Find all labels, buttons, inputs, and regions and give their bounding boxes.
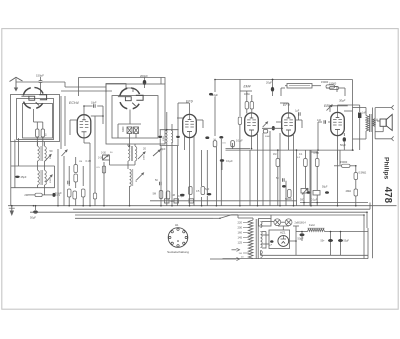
svg-text:1M: 1M: [172, 194, 175, 197]
junction: [296, 149, 298, 151]
junction: [352, 149, 354, 151]
bus tap boxes: [165, 199, 170, 203]
tuning gang section C1: [23, 88, 31, 96]
wire: [372, 108, 374, 259]
wire: [33, 109, 35, 122]
junction: [189, 205, 191, 207]
tube AZ1: [278, 236, 289, 247]
resistor 15000: [330, 86, 339, 89]
wire: [83, 106, 85, 115]
resistor 5M: [159, 191, 163, 199]
resistor 50000: [288, 190, 292, 198]
IF transformer 1 coils: [166, 131, 168, 143]
svg-text:1015: 1015: [50, 177, 52, 183]
wire: [288, 137, 290, 151]
socket pins: [177, 245, 179, 247]
junction: [129, 145, 131, 147]
transformer taps: [243, 222, 249, 224]
capacitor 4.5uF: [15, 176, 20, 178]
speaker frame top: [375, 107, 391, 109]
svg-text:15000: 15000: [329, 82, 337, 86]
wire: [337, 105, 339, 112]
trimmer arrow: [62, 150, 68, 157]
resistor: [263, 129, 267, 133]
junction: [251, 148, 253, 150]
junction: [317, 149, 319, 151]
wire: [129, 134, 131, 147]
trimmer arrow: [138, 152, 146, 160]
wire: [129, 110, 131, 125]
svg-text:150pF: 150pF: [36, 74, 44, 78]
capacitor: [270, 240, 273, 243]
svg-text:50µF: 50µF: [322, 186, 328, 189]
wire: [103, 154, 107, 156]
antenna coil L1: [38, 147, 40, 161]
transformer secondary HT: [261, 232, 263, 248]
capacitor 0.1uF: [220, 159, 224, 162]
wire: [262, 231, 266, 233]
rectifier box: [269, 230, 290, 249]
EM4 target box: [287, 84, 312, 89]
junction: [239, 205, 241, 207]
junction: [272, 79, 274, 81]
wire: [369, 203, 371, 210]
junction: [279, 205, 281, 207]
capacitor 50uF: [35, 206, 37, 210]
wire: [277, 150, 279, 159]
junction: [330, 231, 332, 233]
junction: [363, 214, 365, 216]
svg-text:Philips: Philips: [382, 157, 389, 180]
output transformer secondary: [373, 119, 375, 127]
junction: [11, 205, 13, 207]
transformer secondary heater 2: [261, 251, 263, 258]
wire: [295, 228, 297, 241]
svg-text:478: 478: [382, 187, 393, 204]
wire: [11, 165, 55, 167]
junction: [303, 202, 305, 204]
svg-text:0.1µF: 0.1µF: [311, 199, 318, 202]
wire: [281, 87, 285, 89]
junction: [102, 115, 104, 117]
junction: [366, 211, 368, 213]
svg-text:125: 125: [238, 241, 243, 245]
wire: [311, 151, 317, 153]
svg-text:3045: 3045: [50, 153, 52, 159]
wire: [326, 87, 330, 89]
wire: [28, 194, 35, 196]
svg-text:Feld: Feld: [309, 223, 315, 227]
horizontal: [300, 202, 368, 204]
resistor: [67, 189, 71, 197]
svg-text:20pF: 20pF: [160, 148, 166, 151]
trimmer arrow: [153, 150, 161, 157]
oscillator shield box: [79, 78, 165, 97]
wire: [239, 80, 241, 117]
wire: [365, 131, 367, 139]
dial lamp 2: [285, 219, 292, 226]
wire: [189, 138, 191, 206]
svg-text:0.5MΩ: 0.5MΩ: [359, 171, 367, 175]
wire: [262, 133, 264, 206]
wire: [251, 137, 253, 149]
resistor 0.1M: [304, 159, 308, 167]
capacitor 50uF b: [340, 232, 342, 256]
capacitor 50pF: [159, 182, 161, 186]
svg-text:2000: 2000: [143, 154, 145, 160]
resistor: [213, 141, 217, 147]
junction: [337, 205, 339, 207]
supply rail: [215, 79, 353, 81]
long horizontal: [226, 149, 291, 151]
svg-text:5000: 5000: [265, 136, 271, 138]
mains lead 1: [223, 258, 237, 260]
junction: [160, 205, 162, 207]
supply rail 2: [297, 149, 355, 151]
wire: [83, 138, 85, 143]
padder trimmer: [134, 127, 139, 134]
tube ECH4: [77, 115, 91, 138]
capacitor: [272, 126, 275, 130]
coil: [36, 129, 39, 137]
wire: [246, 91, 248, 102]
wire: [10, 142, 12, 206]
svg-text:10pF: 10pF: [91, 102, 97, 105]
trimmer arrow: [263, 122, 268, 128]
resistor 15000: [342, 164, 351, 167]
tube EF9b: [282, 113, 296, 136]
dial lamp 1: [274, 219, 281, 226]
bottom rail 2: [223, 258, 369, 260]
resistor 1M: [276, 159, 280, 167]
svg-text:20µF: 20µF: [266, 81, 272, 85]
IF transformer cap: [159, 130, 161, 135]
junction: [166, 129, 168, 131]
wire: [325, 231, 369, 233]
junction: [355, 165, 357, 167]
svg-text:Sockelschaltung: Sockelschaltung: [167, 250, 189, 254]
capacitor 10pF: [93, 104, 95, 108]
bus line 4: [75, 214, 364, 216]
wire: [355, 180, 357, 190]
capacitor 1uF: [298, 112, 300, 116]
svg-text:1µF: 1µF: [295, 110, 300, 113]
wire: [337, 136, 339, 206]
resistor: [102, 166, 105, 173]
bottom rail: [261, 254, 369, 256]
wire: [288, 103, 290, 113]
wire: [290, 149, 297, 151]
wire: [272, 80, 274, 88]
svg-text:50µF: 50µF: [298, 237, 304, 241]
speaker frame left: [374, 108, 376, 139]
junction: [89, 205, 91, 207]
wire: [127, 144, 129, 146]
capacitor: [180, 194, 185, 196]
capacitor: [205, 136, 209, 139]
svg-text:Ω1: Ω1: [175, 223, 179, 227]
svg-text:45pF: 45pF: [21, 175, 27, 179]
junction: [129, 205, 131, 207]
wire: [221, 162, 223, 170]
wire: [365, 108, 367, 116]
wire: [160, 146, 162, 206]
oscillator coil: [128, 147, 130, 161]
capacitor: [307, 191, 311, 194]
wire: [37, 142, 39, 147]
wire: [237, 215, 239, 218]
wire: [334, 165, 342, 167]
svg-text:3-30: 3-30: [101, 152, 106, 155]
wire: [60, 96, 62, 149]
svg-text:2x8018/14: 2x8018/14: [295, 222, 307, 225]
svg-text:0.1µF: 0.1µF: [55, 191, 62, 195]
wire: [57, 149, 59, 206]
supply drop: [352, 80, 354, 151]
junction: [82, 205, 84, 207]
oscillator coil box: [106, 84, 165, 144]
trimmer arrow: [327, 105, 333, 111]
wire: [335, 86, 338, 88]
capacitor 0.1uF: [67, 181, 69, 185]
svg-text:0.1µF: 0.1µF: [226, 159, 233, 163]
junction: [35, 205, 37, 207]
wire: [214, 80, 216, 93]
svg-text:15000: 15000: [321, 80, 329, 84]
IF transformer cap 2: [177, 130, 179, 135]
wire: [296, 150, 298, 206]
resistor 0.5M: [315, 159, 319, 167]
junction: [295, 240, 297, 242]
junction: [301, 231, 303, 233]
wire: [262, 234, 269, 236]
svg-text:220: 220: [238, 221, 243, 225]
svg-text:30pF: 30pF: [339, 99, 346, 103]
tube socket: [168, 228, 188, 248]
wire: [344, 110, 353, 112]
svg-text:ECH4: ECH4: [69, 101, 79, 105]
svg-text:50µF: 50µF: [340, 143, 346, 147]
bus line: [150, 200, 297, 202]
oscillator coil box inner: [112, 96, 158, 138]
svg-text:50µF: 50µF: [344, 240, 350, 243]
svg-text:3000: 3000: [122, 126, 125, 132]
svg-text:0.5µF: 0.5µF: [178, 195, 185, 198]
wire: [65, 86, 106, 88]
trimmer box 3-30: [103, 155, 110, 160]
resistor 2M: [35, 193, 42, 196]
transformer core: [255, 219, 257, 259]
svg-text:4Ω: 4Ω: [171, 201, 174, 203]
wire: [330, 105, 348, 107]
trimmer arrow: [46, 175, 53, 183]
svg-text:EBL1: EBL1: [324, 104, 333, 108]
capacitor 20uF: [271, 87, 274, 92]
capacitor: [323, 120, 325, 124]
resistor: [189, 187, 193, 195]
antenna coil L2: [38, 171, 40, 185]
transformer secondary heater: [261, 222, 263, 228]
resistor 0.5M: [354, 173, 358, 180]
tube EBL1: [331, 112, 345, 135]
junction: [340, 231, 342, 233]
svg-text:200: 200: [238, 226, 243, 230]
svg-text:1nF: 1nF: [317, 119, 322, 122]
speaker frame bottom: [375, 138, 391, 140]
junction: [33, 205, 35, 207]
wire: [11, 187, 55, 189]
capacitor: [52, 193, 55, 197]
capacitor: [282, 185, 286, 188]
wire: [40, 85, 42, 95]
resistor 4M: [354, 189, 358, 196]
wire: [177, 117, 183, 119]
stepped box: [106, 84, 133, 93]
bus line 2: [73, 208, 370, 210]
junction: [201, 205, 203, 207]
junction: [293, 205, 295, 207]
wire: [382, 126, 384, 131]
svg-text:2M: 2M: [24, 193, 28, 197]
oscillator coil 2: [130, 170, 132, 187]
antenna coil shield box inner2: [23, 104, 53, 139]
wire: [75, 217, 213, 219]
resistor: [245, 102, 248, 110]
capacitor 1nF: [359, 108, 361, 112]
junction: [83, 105, 85, 107]
svg-text:1M: 1M: [273, 153, 276, 156]
svg-text:1M: 1M: [79, 161, 82, 163]
junction: [272, 79, 274, 81]
wire: [249, 150, 251, 206]
dial lamp box: [259, 219, 272, 227]
junction: [57, 205, 59, 207]
trimmer arrow: [137, 173, 145, 181]
tube EF9: [183, 114, 197, 137]
trimmer arrow: [45, 154, 52, 161]
capacitor 50pF: [39, 80, 43, 82]
bus line 3: [30, 211, 367, 213]
wire: [262, 127, 283, 129]
capacitor 200pF: [143, 80, 147, 85]
speaker: [380, 119, 386, 126]
wire: [16, 81, 39, 83]
svg-text:3-30: 3-30: [98, 157, 103, 160]
svg-text:AZ1: AZ1: [280, 230, 286, 234]
junction: [316, 202, 318, 204]
capacitor 50uF: [301, 232, 303, 234]
transformer primary: [248, 220, 253, 259]
capacitor: [209, 93, 213, 96]
resistor 15000: [326, 85, 335, 88]
antenna: [10, 77, 23, 81]
capacitor: [219, 136, 223, 139]
junction: [277, 149, 279, 151]
svg-text:10µF: 10µF: [212, 93, 218, 97]
wire: [285, 85, 287, 87]
svg-text:200pF: 200pF: [140, 74, 148, 78]
output transformer primary: [366, 116, 369, 132]
resistor: [74, 165, 78, 173]
svg-text:50+: 50+: [321, 240, 326, 243]
antenna coil shield box inner: [17, 99, 54, 140]
antenna coil shield box: [11, 95, 60, 142]
svg-text:1300: 1300: [163, 135, 165, 141]
wire: [367, 228, 369, 259]
wire: [295, 119, 302, 121]
junction: [257, 205, 259, 207]
wire: [36, 137, 38, 146]
ground bus: [8, 205, 397, 207]
volume pot: [301, 189, 308, 194]
wire: [189, 103, 191, 114]
junction: [68, 205, 70, 207]
svg-text:5M: 5M: [153, 193, 156, 196]
junction: [355, 205, 357, 207]
junction: [214, 79, 216, 81]
capacitor 50uF: [343, 133, 345, 136]
wire: [328, 121, 331, 123]
wire: [262, 221, 274, 223]
wire: [91, 115, 103, 117]
capacitor 50+50uF: [330, 232, 332, 256]
svg-text:EM4: EM4: [244, 85, 251, 89]
svg-text:145: 145: [238, 236, 243, 240]
svg-text:0.5M: 0.5M: [314, 152, 319, 155]
capacitor 50pF: [282, 178, 284, 182]
wire: [246, 109, 248, 114]
resistor: [231, 141, 235, 147]
padder trimmer: [127, 127, 132, 134]
svg-text:15000: 15000: [340, 160, 348, 164]
wire: [166, 112, 168, 131]
junction: [316, 151, 318, 153]
junction: [310, 205, 312, 207]
wire: [201, 150, 203, 186]
tuning gang section C2: [120, 88, 128, 96]
IF transformer 1 frame: [160, 129, 179, 131]
field coil: [308, 229, 325, 232]
mains switch: [213, 217, 220, 219]
output transformer core: [369, 114, 371, 132]
tube EM4: [245, 113, 259, 136]
svg-text:50µF: 50µF: [30, 216, 36, 220]
junction: [103, 205, 105, 207]
ground: [11, 206, 13, 211]
junction: [216, 205, 218, 207]
mains lead 2: [232, 249, 237, 251]
svg-text:160: 160: [238, 231, 243, 235]
junction: [171, 205, 173, 207]
resistor: [166, 191, 170, 199]
svg-text:4MΩ: 4MΩ: [346, 189, 352, 193]
wire: [220, 139, 222, 206]
